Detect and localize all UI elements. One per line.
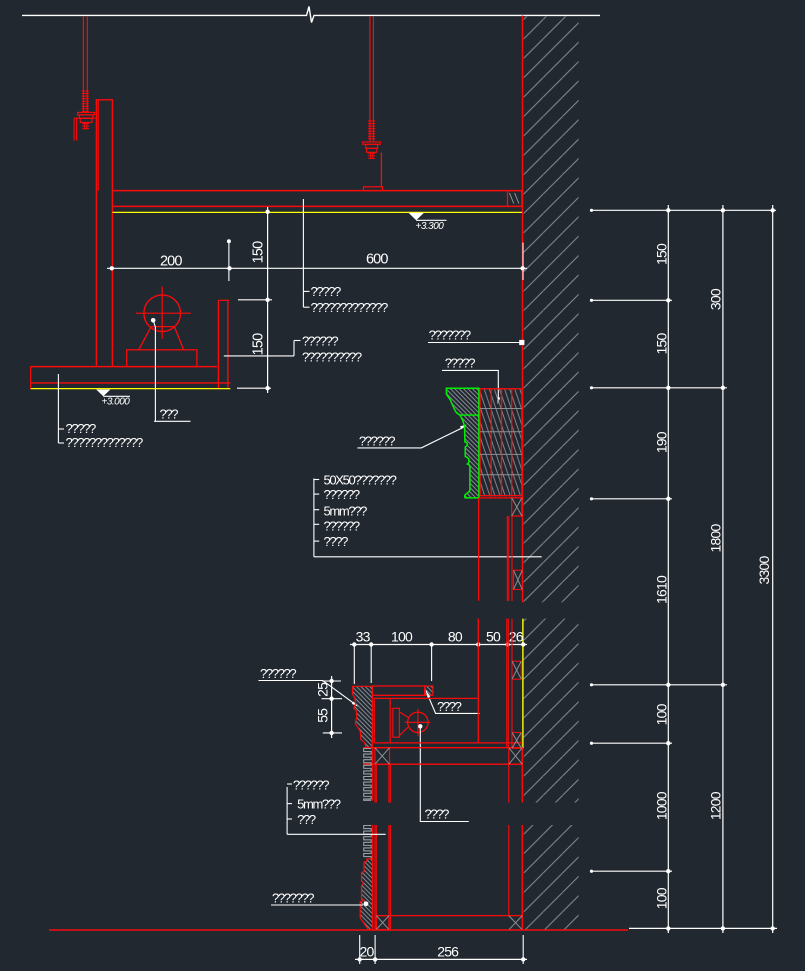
svg-text:26: 26 — [509, 629, 524, 645]
svg-text:150: 150 — [251, 333, 267, 355]
svg-text:1800: 1800 — [708, 524, 724, 553]
svg-text:???: ??? — [297, 812, 316, 827]
svg-text:????: ???? — [324, 534, 349, 549]
svg-text:55: 55 — [315, 708, 331, 723]
svg-text:3300: 3300 — [756, 556, 772, 585]
svg-text:??????: ?????? — [324, 487, 360, 502]
svg-text:33: 33 — [356, 629, 371, 645]
svg-text:???????: ??????? — [272, 891, 314, 906]
svg-text:150: 150 — [654, 333, 670, 355]
svg-text:?????: ????? — [311, 284, 342, 299]
svg-text:??????????: ?????????? — [302, 350, 362, 365]
svg-text:????: ???? — [425, 806, 450, 821]
svg-text:+3.000: +3.000 — [102, 396, 131, 407]
svg-text:??????: ?????? — [359, 434, 395, 449]
svg-text:150: 150 — [654, 243, 670, 265]
svg-text:100: 100 — [654, 887, 670, 909]
svg-text:600: 600 — [366, 251, 388, 267]
svg-text:?????????????: ????????????? — [311, 300, 389, 315]
svg-text:256: 256 — [437, 943, 459, 959]
svg-text:300: 300 — [708, 288, 724, 310]
svg-text:???????: ??????? — [429, 327, 471, 342]
svg-text:?????????????: ????????????? — [66, 435, 144, 450]
svg-text:??????: ?????? — [302, 333, 338, 348]
svg-text:??????: ?????? — [324, 518, 360, 533]
svg-text:100: 100 — [654, 703, 670, 725]
svg-text:5mm???: 5mm??? — [297, 796, 341, 811]
svg-text:???: ??? — [160, 406, 179, 421]
svg-text:100: 100 — [391, 629, 413, 645]
svg-text:1610: 1610 — [654, 575, 670, 604]
svg-text:5mm???: 5mm??? — [324, 504, 368, 519]
svg-text:50: 50 — [486, 629, 501, 645]
svg-text:1200: 1200 — [708, 791, 724, 820]
svg-text:+3.300: +3.300 — [416, 221, 445, 232]
svg-text:50X50???????: 50X50??????? — [324, 472, 397, 487]
svg-text:20: 20 — [360, 943, 375, 959]
svg-text:200: 200 — [160, 253, 182, 269]
svg-text:????: ???? — [437, 699, 462, 714]
svg-text:?????: ????? — [445, 356, 476, 371]
svg-text:190: 190 — [654, 431, 670, 453]
svg-text:??????: ?????? — [260, 666, 296, 681]
svg-text:80: 80 — [448, 629, 463, 645]
svg-text:??????: ?????? — [293, 777, 329, 792]
svg-text:150: 150 — [251, 241, 267, 263]
svg-text:1000: 1000 — [654, 791, 670, 820]
